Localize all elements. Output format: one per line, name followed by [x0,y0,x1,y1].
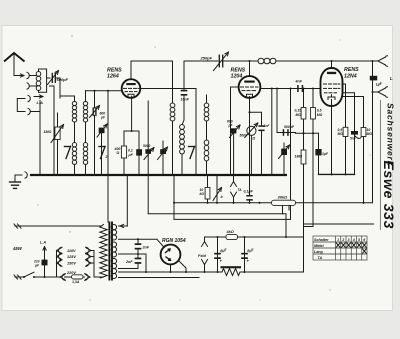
trimmer capacitor 600pF b [99,128,105,134]
svg-text:2nF: 2nF [125,260,133,264]
wire [303,164,305,272]
wire [372,92,374,203]
svg-text:12N4: 12N4 [344,74,357,80]
wire [138,156,140,175]
svg-text:MΩ: MΩ [338,132,344,136]
choke bar [221,266,242,268]
wire [93,251,95,278]
wire [94,91,96,108]
RGN anodes [166,249,171,253]
trimmer capacitor 600pF c [231,128,237,133]
cathode bus segment [319,173,355,175]
wire [145,254,147,272]
coil L6b [204,140,209,161]
tuning arrow 7_2 [99,146,105,148]
coil L6a [206,95,208,103]
wire [30,75,37,77]
svg-text:45W: 45W [12,246,23,251]
L.A jack loop [17,99,25,112]
V2 grid left wire [231,86,239,88]
wire heater 1 [147,175,149,214]
svg-text:150V: 150V [67,262,76,266]
rectifier tube RGN1054 [161,245,181,265]
wire H1 [148,214,286,237]
trimmer capacitor 5000pF [145,149,151,154]
wire [107,91,109,175]
wire [53,86,55,175]
wire grid leak [343,97,364,128]
wire [15,174,22,176]
capacitor 4nF [297,85,299,92]
secondary heater winding [111,259,116,279]
wire [363,137,365,203]
svg-text:6: 6 [363,238,365,242]
svg-text:MΩ: MΩ [296,113,302,117]
wire 4k line [205,236,304,238]
V3 grids [324,83,327,85]
resistor 4k [226,234,238,239]
wire anode column [195,89,197,176]
V2 top riser [249,61,251,76]
capacitor LA [42,260,48,266]
V1 anode [126,83,135,85]
wire [345,137,347,175]
svg-text:kΩ: kΩ [200,192,205,196]
filter coil L3b [83,143,87,165]
wire [250,112,262,125]
filter coil L2a [72,102,76,122]
svg-text:1MΩ: 1MΩ [295,155,303,159]
V1 grid wire [86,90,123,92]
jack L.A top [28,95,30,101]
capacitor 2nF a [137,239,139,243]
wire [206,161,208,175]
wire [282,205,284,213]
V2 anode [244,81,254,83]
svg-text:30kΩ: 30kΩ [278,195,289,200]
V1 plate load wire [140,88,196,90]
capacitor 5nF [351,131,358,135]
mains switch [24,272,34,277]
wire RGN cathode [170,264,172,272]
capacitor 1nF [258,125,264,127]
coil L5 [182,120,184,125]
potentiometer 5000 ohm [247,126,256,135]
svg-text:250pF: 250pF [200,56,213,61]
taps [119,225,128,227]
svg-text:TA: TA [238,188,243,192]
svg-text:L.A: L.A [40,241,46,245]
svg-text:2: 2 [341,238,344,242]
transformer core [108,222,110,281]
ground bus [30,174,287,176]
cathode box [124,130,139,132]
wire heater col [147,101,149,175]
capacitor 8uF b [244,237,246,272]
svg-text:1204: 1204 [231,74,243,80]
wire [181,154,183,175]
resistor 10k [207,175,209,188]
wire [276,89,278,133]
svg-text:5000: 5000 [240,134,248,138]
svg-text:L: L [390,76,393,81]
svg-text:Ω: Ω [251,137,255,141]
svg-text:4nF: 4nF [295,80,303,84]
V3 cathode wire [331,100,333,175]
fuse [72,275,84,279]
wire transformer feed [126,175,128,226]
secondary mid winding [111,242,116,257]
capacitor 1uF out [370,76,377,81]
svg-text:0,1: 0,1 [128,149,133,153]
resistor 400 ohm [121,146,126,158]
svg-text:Eswe 333: Eswe 333 [381,161,397,230]
wire trimmer to filter [55,78,60,98]
V1 anode top wire [131,61,173,79]
resistor 10M [361,128,366,137]
wire jack to filter [31,101,41,112]
V2 grid dashes [241,86,244,88]
svg-text:1: 1 [337,238,339,242]
svg-text:1nF: 1nF [264,124,271,128]
arrow L.A [34,96,43,98]
svg-text:4: 4 [352,238,355,242]
svg-text:0,1μF: 0,1μF [244,190,254,194]
V3 cathode [328,97,335,100]
wire riser [173,175,175,219]
svg-text:1μF: 1μF [322,152,329,156]
field resistor zigzag [222,269,240,276]
svg-text:Feld: Feld [198,254,206,258]
wire RGN right [179,261,187,273]
svg-text:RENS: RENS [344,67,359,73]
svg-text:10nF: 10nF [181,98,190,102]
wire [85,122,87,143]
capacitor 8uF a [217,237,219,272]
svg-text:2: 2 [105,155,108,159]
svg-text:Mittel: Mittel [314,244,325,248]
switch table [313,236,367,260]
capacitor 2nF b [137,249,139,257]
svg-text:Ω: Ω [116,151,120,155]
V2 cathode [247,94,253,96]
wire [303,227,305,238]
TA jacks [233,175,235,182]
HT rail [240,271,304,273]
svg-text:RGN 1054: RGN 1054 [162,238,186,244]
trimmer capacitor 600pF [51,74,53,83]
V3 anode bar [327,72,336,74]
svg-text:1,3A: 1,3A [72,280,80,284]
coil L4 [170,103,175,121]
svg-text:Lang: Lang [314,250,324,254]
wire [206,121,208,140]
wire [74,122,76,143]
wire [296,132,319,135]
svg-text:2nF: 2nF [142,246,150,250]
wire H2 [174,218,291,220]
svg-text:5000: 5000 [143,144,151,148]
svg-text:TA: TA [318,256,323,260]
wire [372,61,374,92]
wire [354,135,356,175]
coil frame [39,69,47,92]
wire antenna to jack [14,75,24,77]
wire 250pF line [184,60,218,62]
wire [47,77,50,79]
resistor 0,5M b [343,127,348,136]
V3 screen wires [343,84,346,127]
filter coil L3a [83,102,87,122]
wire [107,175,109,222]
wire [101,133,103,175]
svg-text:125V: 125V [67,255,76,259]
speaker jack 2 [378,87,388,98]
V1 grid dashes [124,87,127,89]
trimmer capacitor 250pF [218,55,220,67]
V2 anode wire [260,88,321,90]
trimmer capacitor [92,108,94,115]
svg-text:MΩ: MΩ [317,113,323,117]
svg-text:110V: 110V [67,249,76,253]
trimmer capacitor 100pF b [281,149,287,155]
transformer primary [100,225,107,279]
wire top links [60,95,75,97]
resistor 0,15M [303,89,305,108]
wire H3 [304,223,374,225]
wire [172,121,174,175]
potentiometer 1M [57,113,59,127]
svg-text:220V: 220V [66,271,76,275]
V2 cathode wire [249,97,251,176]
svg-text:4kΩ: 4kΩ [226,230,234,234]
svg-text:μF: μF [128,153,134,157]
wire [318,133,320,174]
mains top wire [15,225,100,227]
L.A branch [44,250,46,277]
V1 cathode [128,94,134,96]
tuning arrow 7_3 [189,146,195,148]
capacitor 500pF [277,132,296,134]
RF choke [258,58,276,64]
svg-text:5: 5 [358,238,360,242]
svg-text:Schalter: Schalter [314,238,329,242]
voltage selector [56,251,58,278]
capacitor 10nF [183,61,185,90]
wire [290,89,292,220]
ground symbol [14,175,16,182]
antenna coil L1 [36,72,41,91]
wire to output [223,60,258,62]
tuning arrow 7_1 [65,146,71,148]
svg-text:Sachsenwerk: Sachsenwerk [385,103,395,167]
capacitor 0,1uF b [249,175,251,196]
tube V3 envelope [321,68,343,106]
antenna jack A1 [27,72,29,78]
svg-text:MΩ: MΩ [367,132,373,136]
tube V1 envelope [122,79,141,98]
antenna [4,53,25,62]
svg-text:3: 3 [348,238,350,242]
svg-text:1MΩ: 1MΩ [44,130,52,134]
capacitor 1uF c [315,149,321,155]
speaker jacks Feld [204,237,206,242]
secondary HV winding [111,225,116,240]
speaker jack 1 [378,56,388,67]
trimmer capacitor 100pF [160,149,166,154]
wire antenna input down [39,101,41,176]
junction [248,60,250,62]
wire [157,239,164,247]
capacitor 0,1uF [136,149,142,155]
resistor 1M [303,133,305,150]
wire [172,61,174,103]
svg-text:1264: 1264 [107,74,119,80]
frame line right [379,100,381,230]
trimmer b [216,175,218,203]
resistor 0,5M [312,89,314,108]
wire [271,89,273,176]
wire node line [174,202,373,204]
jack L.A bottom [28,108,30,114]
bottom rail B x [304,226,314,228]
tube V2 envelope [239,76,261,98]
V3 top riser [331,61,333,68]
wire [303,119,305,133]
mains bottom wire [15,276,24,278]
chassis jack [25,172,27,178]
svg-text:500pF: 500pF [284,125,295,129]
filter coil L2b [72,143,76,165]
svg-text:b: b [221,195,223,199]
V1 cathode network [131,96,133,131]
antenna jack A2 [27,83,29,89]
